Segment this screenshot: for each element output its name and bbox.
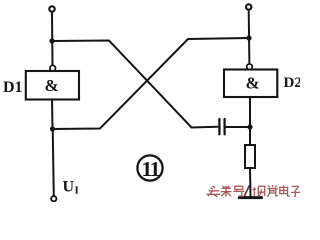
char shi (253, 186, 265, 196)
wire cross left-to-right (D1 input to capacitor) (52, 41, 218, 128)
wire left input vertical (51, 12, 54, 65)
svg-text:I: I (75, 185, 79, 197)
wire to input terminal UI (53, 129, 54, 196)
terminal bottom-left UI (51, 196, 56, 201)
terminal top-left (49, 6, 54, 11)
figure number circle 11 (137, 155, 162, 180)
gate D2 box (224, 70, 277, 98)
svg-text:&: & (246, 74, 260, 93)
wire resistor to ground (249, 168, 252, 196)
wire right input vertical (248, 10, 251, 64)
slash (244, 185, 249, 196)
char zi (291, 186, 300, 196)
resistor R box (245, 145, 255, 168)
ground (239, 196, 261, 199)
inverter bubble D1 input (50, 65, 56, 71)
gate D1 box (26, 71, 79, 100)
wire capacitor to right node (226, 126, 250, 128)
char tiao (221, 186, 232, 197)
svg-text:U: U (63, 179, 75, 196)
svg-text:11: 11 (142, 157, 160, 181)
node right-top junction (246, 35, 251, 40)
capacitor C plate right (223, 119, 225, 134)
svg-text:D2: D2 (284, 75, 301, 91)
node right-bottom junction (247, 124, 252, 129)
watermark 头条号/视觉电子 (207, 185, 301, 197)
terminal top-right (246, 4, 251, 9)
svg-text:&: & (45, 76, 59, 95)
char jue (267, 185, 278, 196)
inverter bubble D2 input (247, 64, 253, 70)
char tou (207, 186, 221, 197)
wire cross right-to-left (D2 input to D1 output) (53, 38, 250, 129)
char dian (280, 185, 290, 196)
node left-top junction (49, 38, 54, 43)
svg-text:D1: D1 (3, 79, 23, 96)
wire D1 output down (51, 100, 54, 130)
wire D2 output down (249, 97, 251, 145)
char hao (233, 186, 244, 196)
capacitor C plate left (218, 119, 220, 134)
node left-bottom junction (50, 126, 55, 131)
